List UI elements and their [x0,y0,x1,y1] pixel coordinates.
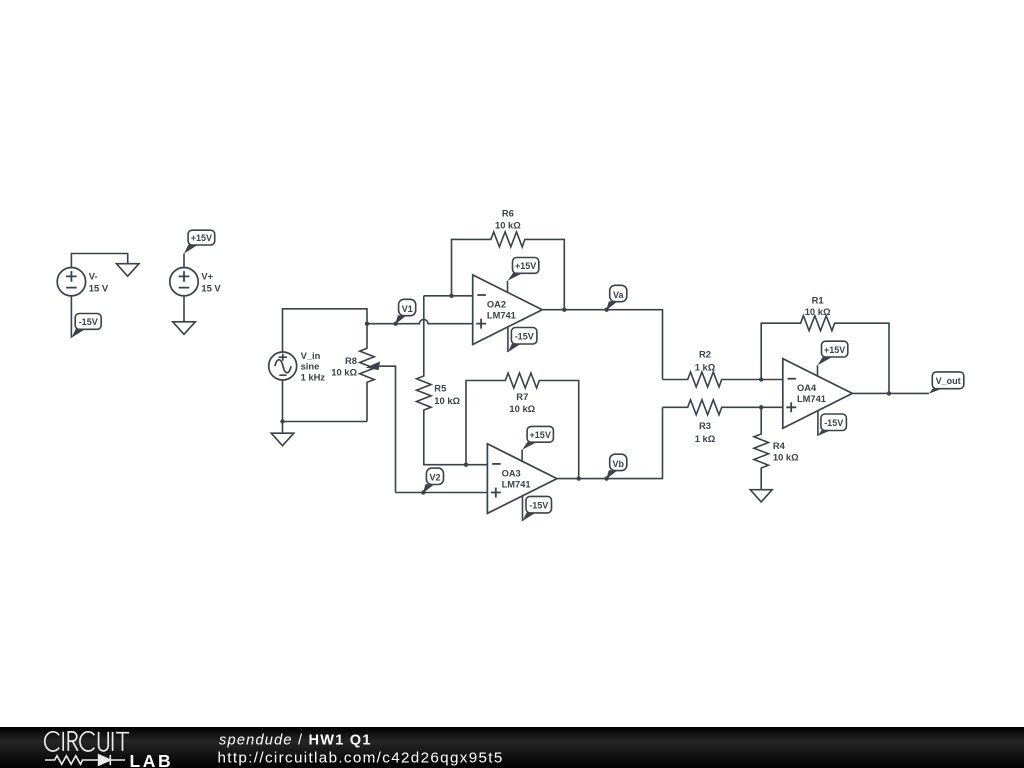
svg-text:-15V: -15V [824,418,843,428]
svg-text:Vb: Vb [613,459,625,469]
ground (R4) [750,490,772,502]
letter T [116,733,129,751]
junction dot R7 right [577,476,581,480]
svg-text:10 kΩ: 10 kΩ [434,395,460,406]
svg-text:+15V: +15V [515,261,536,271]
resistor R8 potentiometer [360,324,396,493]
junction dot R3/R4 [759,405,763,409]
label R8 10 kOhm [331,355,357,377]
OA2 top power stub [507,281,509,293]
wire V- bottom [70,296,72,338]
letter C [80,732,94,751]
label R1 10 kOhm [805,294,831,317]
wire V1 to OA2 plus input (hop over R5) [367,319,473,323]
svg-text:spendude / HW1 Q1: spendude / HW1 Q1 [219,733,372,749]
label R3 1 kOhm [695,420,716,444]
label V+ 15 V [201,271,221,294]
svg-text:10 kΩ: 10 kΩ [805,306,831,317]
label V- 15 V [89,271,109,294]
resistor R3 [663,400,783,415]
svg-text:+15V: +15V [824,345,845,355]
svg-text:1 kΩ: 1 kΩ [695,362,716,373]
svg-text:V+: V+ [201,271,213,282]
wire flag to V+ [183,254,185,268]
wire OA2 output to R2 (node Va) [542,310,662,380]
wire V_in bottom to R8 bottom [283,381,368,422]
voltage source V- [57,268,85,296]
CircuitLab logo: resistor-diode glyph [45,755,125,765]
svg-text:sine: sine [301,361,320,372]
net flag V_out [929,372,964,394]
resistor R2 [663,372,783,387]
label R7 10 kOhm [509,391,535,414]
CircuitLab logo: CIRCUIT [45,732,129,751]
junction dot R2/R1 [759,377,763,381]
label V_in sine 1 kHz [301,350,326,382]
wire V_in top to R8 top / V1 junction [283,309,368,352]
wire OA2 minus input [424,295,473,297]
svg-text:R1: R1 [812,294,824,305]
letter I [112,732,114,751]
svg-text:10 kΩ: 10 kΩ [773,452,799,463]
svg-text:+15V: +15V [191,233,212,243]
footer bar [0,727,1024,768]
resistor R1 feedback OA4 [761,316,889,394]
net flag Va [604,285,626,312]
svg-text:10 kΩ: 10 kΩ [509,403,535,414]
letter U [99,732,109,751]
svg-text:+15V: +15V [530,430,551,440]
ground (V-) [116,264,139,277]
svg-text:R8: R8 [345,355,357,366]
svg-text:LM741: LM741 [797,394,826,404]
letter C [45,732,59,751]
net flag V2 [421,468,443,495]
svg-text:1 kHz: 1 kHz [301,371,326,382]
junction dot V_in bottom [280,419,284,423]
svg-text:V_in: V_in [301,350,321,361]
svg-text:LM741: LM741 [487,311,516,321]
net flag -15V (OA2) [508,328,537,353]
svg-text:R2: R2 [699,349,711,360]
net flag Vb [604,454,626,481]
net flag +15V (OA2) [508,258,539,281]
OA3 top power stub [521,450,523,462]
op-amp OA3 LM741 [487,444,557,514]
wire V+ bottom [183,296,185,322]
letter I [62,732,64,751]
svg-text:Va: Va [613,290,625,300]
svg-text:OA2: OA2 [487,299,506,309]
junction dot R5/OA3 minus [464,463,468,467]
voltage source V_in sine [269,352,297,380]
net flag +15V (V+) [184,230,215,253]
net flag -15V (V-) [71,314,101,338]
OA4 bottom power stub [817,411,819,436]
svg-text:R3: R3 [699,420,711,431]
net flag -15V (OA3) [523,496,552,521]
svg-text:V1: V1 [402,304,413,314]
wire OA4 output to V_out [852,392,929,394]
svg-text:V2: V2 [429,473,440,483]
svg-text:10 kΩ: 10 kΩ [495,219,521,230]
svg-text:R7: R7 [516,391,528,402]
svg-text:1 kΩ: 1 kΩ [695,433,716,444]
svg-text:V_out: V_out [936,376,961,386]
net flag +15V (OA4) [818,341,848,365]
OA4 top power stub [817,365,819,376]
letter R [68,732,78,751]
svg-text:R5: R5 [434,383,446,394]
svg-text:-15V: -15V [79,317,98,327]
ground (V_in) [271,433,294,446]
svg-text:R6: R6 [502,208,514,219]
svg-text:15 V: 15 V [89,282,109,293]
junction dot R8 top [365,322,369,326]
wire OA3 output to R3 (node Vb) [557,407,663,478]
net flag +15V (OA3) [522,426,553,449]
svg-text:OA4: OA4 [797,383,817,393]
op-amp OA4 LM741 [783,359,853,429]
label R5 10 kOhm [434,383,460,406]
resistor R7 feedback OA3 [466,373,579,479]
resistor R4 [754,407,769,489]
wire V- top to ground [71,254,127,268]
wire R8 wiper to OA3 plus input (node V2) [396,492,488,494]
svg-text:LAB: LAB [130,751,174,768]
svg-text:V-: V- [89,271,98,282]
wire V_in bottom to ground [282,422,284,434]
svg-text:http://circuitlab.com/c42d26qg: http://circuitlab.com/c42d26qgx95t5 [218,750,504,767]
svg-text:-15V: -15V [515,332,534,342]
ground (V+) [173,322,196,335]
svg-text:LM741: LM741 [502,479,531,489]
junction dot R6 left [449,294,453,298]
svg-text:-15V: -15V [529,500,548,510]
svg-text:10 kΩ: 10 kΩ [331,366,357,377]
junction dot R1 right [887,391,891,395]
label R4 10 kOhm [773,440,799,463]
net flag -15V (OA4) [818,414,847,436]
voltage source V+ [170,268,198,296]
net flag V1 [393,299,415,326]
svg-text:OA3: OA3 [502,468,521,478]
OA3 bottom power stub [522,496,524,521]
junction dot R6 right [562,308,566,312]
svg-text:R4: R4 [773,440,786,451]
label R2 1 kOhm [695,349,716,373]
op-amp OA2 LM741 [473,275,543,345]
label R6 10 kOhm [495,208,521,231]
OA2 bottom power stub [507,327,509,352]
resistor R6 feedback OA2 [452,232,565,310]
resistor R5 [417,296,488,465]
svg-text:15 V: 15 V [201,282,221,293]
